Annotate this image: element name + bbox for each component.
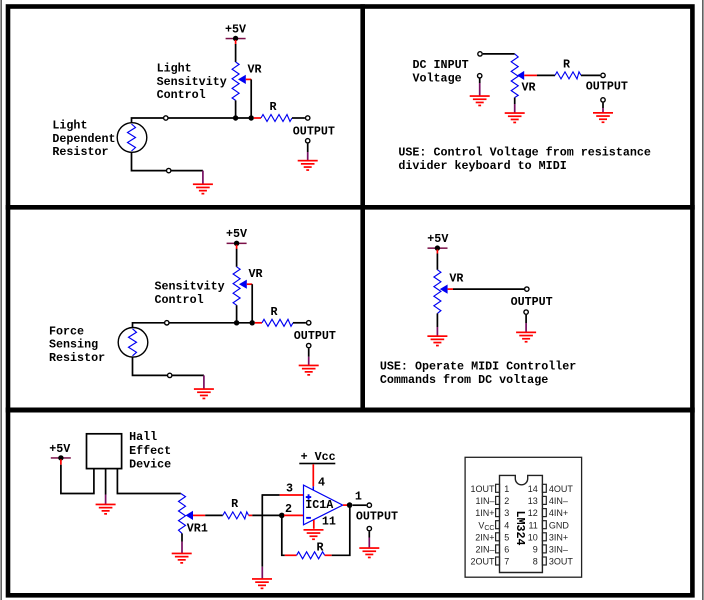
ground [194,388,214,399]
FSR circle [118,328,148,358]
svg-text:OUTPUT: OUTPUT [293,124,335,138]
svg-text:Sensing: Sensing [49,338,98,352]
pin labels left [470,484,495,567]
output ground stem purple [308,357,310,365]
svg-text:2IN–: 2IN– [475,545,494,555]
potentiometer VR1 zigzag [179,494,186,534]
svg-text:2: 2 [285,502,292,516]
+5V junction dot [435,245,440,250]
svg-text:3IN–: 3IN– [549,545,568,555]
svg-text:4IN–: 4IN– [549,496,568,506]
wire R to output [581,74,600,76]
op-amp plus sign [306,496,311,498]
ground [252,578,272,589]
red wire to R [254,117,261,119]
svg-text:4: 4 [504,520,509,530]
pot wiper arrow [440,285,448,294]
svg-text:6: 6 [504,545,509,555]
svg-text:1: 1 [355,490,362,504]
svg-text:Dependent: Dependent [52,132,115,146]
LM324 IC body [500,475,543,572]
svg-text:GND: GND [549,520,570,530]
VR1 wiper arrow [186,511,194,520]
output terminal [367,503,371,507]
ground pin11 [304,529,324,540]
svg-text:OUTPUT: OUTPUT [294,329,336,343]
svg-text:9: 9 [533,545,538,555]
pin boxes left [496,484,500,565]
wire R to output [292,117,305,119]
+5V power bar [226,38,246,40]
svg-text:4IN+: 4IN+ [549,508,568,518]
pin labels right [549,484,574,567]
svg-text:USE: Operate MIDI Controller: USE: Operate MIDI Controller [380,360,576,374]
junction dot wiper [250,320,255,325]
svg-text:+5V: +5V [427,232,448,246]
output ground terminal [524,310,528,314]
svg-text:VR1: VR1 [187,522,208,536]
pot bottom wire [436,313,438,327]
wire dot to output terminal [353,504,367,506]
red wire after R [249,514,253,516]
output ground stem [602,103,604,108]
svg-text:Light: Light [52,118,87,132]
svg-text:3: 3 [286,482,293,496]
svg-text:VR: VR [449,272,463,286]
outer thin right border line [702,0,703,600]
svg-text:1: 1 [504,484,509,494]
red wiper wire [448,288,453,290]
feedback red right [325,554,332,556]
svg-text:+5V: +5V [49,442,70,456]
resistor R zigzag [223,512,249,519]
red wire to R [255,322,262,324]
svg-text:Voltage: Voltage [413,71,462,85]
wire +5V to pot [235,44,237,62]
svg-text:11: 11 [528,520,537,530]
svg-text:VR: VR [248,62,262,76]
potentiometer VR zigzag [232,62,239,100]
svg-text:4: 4 [318,476,325,490]
LM324 pinout outer box [465,457,581,577]
ground [427,335,447,346]
resistor R zigzag [555,72,581,79]
+5V power bar [428,247,448,249]
pot wiper arrow [239,280,247,289]
svg-text:14: 14 [528,484,538,494]
input terminal [478,52,482,56]
ground [505,112,525,123]
wiper drop wire [250,79,252,118]
output ground terminal [367,526,371,530]
VR1 ground stem [181,542,183,554]
ground [359,547,379,558]
svg-text:13: 13 [528,496,538,506]
red wiper wire [524,74,537,76]
feedback wire down from pin2 [282,515,285,555]
output terminal [601,73,605,77]
wire wiper to R [205,514,223,516]
feedback resistor R zigzag [297,552,325,559]
pot wiper arrow [517,71,524,80]
input lower terminal [478,74,482,78]
pot bottom wire [236,305,238,323]
hall right pin wire [117,469,180,494]
output ground stem [525,315,527,323]
svg-text:R: R [317,541,324,555]
svg-text:Resistor: Resistor [52,145,108,159]
Vcc bar [299,463,335,465]
output ground stem black [307,144,309,152]
ground [193,183,213,194]
wire +5V to pot [236,249,238,267]
red wire below +5V [60,459,62,465]
op-amp IC1A triangle [304,485,343,525]
junction dot pot bottom [234,320,239,325]
wire wiper to R [537,74,555,76]
svg-text:4OUT: 4OUT [549,484,574,494]
svg-text:7: 7 [504,557,509,567]
junction dot pot bottom [233,115,238,120]
svg-text:Commands from DC voltage: Commands from DC voltage [380,373,548,387]
wire apex to dot red [343,504,347,506]
svg-text:VR: VR [522,81,536,95]
svg-text:2IN+: 2IN+ [475,532,494,542]
horizontal divider 1 [6,205,695,210]
hall middle pin ground stem [105,495,107,505]
svg-text:3: 3 [504,508,509,518]
svg-text:OUTPUT: OUTPUT [586,80,628,94]
+5V junction dot [234,241,239,246]
svg-text:3OUT: 3OUT [549,557,574,567]
pot wiper arrow [238,75,246,84]
svg-text:+5V: +5V [226,227,247,241]
potentiometer VR zigzag [233,267,240,305]
horizontal divider 2 [6,408,695,413]
svg-text:IC1A: IC1A [305,498,334,512]
wiper drop wire [251,284,253,323]
red wiper wire [247,283,252,285]
LDR zigzag [128,124,136,151]
pot bottom wire [514,98,516,105]
bus wire [133,323,253,328]
ground stem purple [202,171,204,184]
svg-text:R: R [270,100,277,114]
+5V junction dot [58,455,63,460]
vertical divider [360,4,365,412]
terminal on bus [164,116,168,120]
pin4 blue stub [312,486,314,490]
red wire below +5V [436,250,438,254]
output ground terminal [306,139,310,143]
output terminal [307,321,311,325]
LDR circle [117,123,147,153]
svg-text:12: 12 [528,508,538,518]
hall middle pin [105,469,107,495]
svg-text:Hall: Hall [129,430,157,444]
ground [172,553,192,564]
output ground terminal [601,98,605,102]
svg-text:R: R [563,57,570,71]
svg-text:Sensitvity: Sensitvity [157,75,227,89]
terminal on bottom wire [167,168,171,172]
svg-text:R: R [271,305,278,319]
output ground stem purple [307,152,309,160]
pin4 red wire [312,464,314,486]
feedback red left [285,554,297,556]
resistor R zigzag [261,115,292,122]
svg-text:Control: Control [157,88,206,102]
FSR zigzag [129,329,137,356]
ground [298,160,318,171]
output terminal [306,116,310,120]
wire wiper to output [453,288,524,290]
wire terminal to pot [483,53,515,55]
svg-text:DC INPUT: DC INPUT [413,58,469,72]
pin3 wire red [280,494,304,496]
svg-text:USE: Control Voltage from resi: USE: Control Voltage from resistance [398,145,651,159]
svg-text:divider keyboard to MIDI: divider keyboard to MIDI [398,159,566,173]
pin3 wire black [262,494,280,496]
FSR bottom wire [133,357,204,375]
+5V power bar [51,457,71,459]
svg-text:Device: Device [129,457,171,471]
svg-text:3IN+: 3IN+ [549,532,568,542]
pin2 wire red [284,514,304,516]
ground [593,112,613,123]
svg-text:1IN–: 1IN– [475,496,494,506]
+5V junction dot [233,36,238,41]
red wiper wire [193,514,205,516]
svg-text:8: 8 [533,557,538,567]
resistor R zigzag [262,319,293,326]
pin11 red wire [313,520,315,529]
svg-text:5: 5 [504,532,509,542]
output junction dot [347,502,353,508]
wire +5V to pot [436,254,438,270]
+5V power bar [227,243,247,245]
output ground terminal [307,343,311,347]
svg-text:VR: VR [249,267,263,281]
svg-text:OUTPUT: OUTPUT [511,295,553,309]
output ground stem black [308,348,310,356]
svg-text:1OUT: 1OUT [470,484,495,494]
pin boxes right [542,484,546,565]
outer thin left border line [1,0,2,600]
ground [96,504,116,515]
ground [516,332,536,343]
svg-text:Light: Light [157,62,192,76]
bus wire [132,118,252,123]
pin3 ground stem [261,567,263,579]
wire +5V to hall pin [61,465,94,494]
svg-text:1IN+: 1IN+ [475,508,494,518]
terminal on bottom wire [168,373,172,377]
svg-text:+ Vcc: + Vcc [301,450,336,464]
svg-text:Resistor: Resistor [49,351,105,365]
LDR bottom wire [132,152,203,170]
hall effect device box [87,434,122,469]
svg-text:11: 11 [322,514,336,528]
output ground stem [368,531,370,537]
svg-text:Effect: Effect [129,444,171,458]
pin2 junction dot [279,513,285,519]
svg-text:2: 2 [504,496,509,506]
svg-text:10: 10 [528,532,538,542]
junction dot wiper [249,115,254,120]
svg-text:OUTPUT: OUTPUT [356,509,398,523]
svg-text:Force: Force [49,324,84,338]
ground [470,95,490,106]
ground stem purple [203,375,205,388]
pin numbers right [528,484,538,567]
terminal on bus [165,321,169,325]
feedback wire to output [332,505,350,555]
pin numbers left [504,484,509,567]
lower terminal stem [479,79,481,84]
svg-text:R: R [231,497,238,511]
pin3 ground vertical wire [261,495,263,567]
potentiometer VR zigzag [434,270,441,314]
red wire below +5V [235,40,237,44]
wire to pin2 node [252,514,281,516]
ground [299,365,319,376]
output terminal [525,287,529,291]
red wiper wire [246,78,251,80]
VR1 bottom wire [181,533,183,541]
svg-text:+5V: +5V [225,22,246,36]
svg-text:2OUT: 2OUT [470,557,495,567]
op-amp minus sign [306,517,311,519]
potentiometer VR zigzag [511,54,518,98]
svg-text:LM324: LM324 [513,510,527,545]
pot bottom wire [235,100,237,118]
svg-text:Control: Control [155,293,204,307]
red wire below +5V [236,245,238,249]
svg-text:Sensitvity: Sensitvity [155,280,225,294]
wire R to output [293,322,306,324]
